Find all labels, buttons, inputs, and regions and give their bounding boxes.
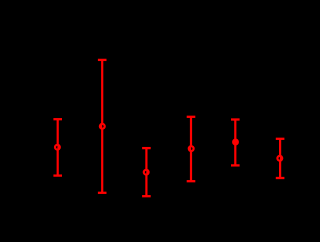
error bar 3 vertical line — [145, 148, 147, 196]
error bar 2 top cap — [98, 59, 107, 61]
error line segment over marker 6 — [280, 156, 282, 162]
error bar 6 top cap — [276, 138, 285, 140]
data point marker 5 (filled) — [232, 139, 239, 146]
error bar 5 top cap — [231, 118, 240, 120]
error bar 1 top cap — [53, 118, 62, 120]
data point marker 6 (open circle) — [277, 156, 282, 161]
error bar 5 bottom cap — [231, 164, 240, 166]
error bar 3 top cap — [142, 147, 151, 149]
error bar 4 top cap — [187, 116, 196, 118]
error line segment over marker 4 — [189, 146, 191, 152]
error bar 6 vertical line — [279, 139, 281, 178]
data point marker 1 (open circle) — [55, 145, 60, 150]
data point marker 2 (open circle) — [100, 124, 105, 129]
error line segment over marker 3 — [146, 169, 148, 175]
error bar 2 vertical line — [101, 60, 103, 193]
error line segment over marker 2 — [100, 124, 102, 130]
error bar 4 vertical line — [190, 117, 192, 181]
error line segment over marker 1 — [57, 144, 59, 150]
error bar 3 bottom cap — [142, 195, 151, 197]
error bar 2 bottom cap — [98, 192, 107, 194]
error bar 4 bottom cap — [187, 180, 196, 182]
error bar 5 vertical line — [234, 120, 236, 166]
error bar 1 bottom cap — [53, 174, 62, 176]
data point marker 4 (open circle) — [189, 146, 194, 151]
error bar 1 vertical line — [57, 119, 59, 175]
data point marker 3 (open circle) — [144, 170, 149, 175]
error bar 6 bottom cap — [276, 177, 285, 179]
